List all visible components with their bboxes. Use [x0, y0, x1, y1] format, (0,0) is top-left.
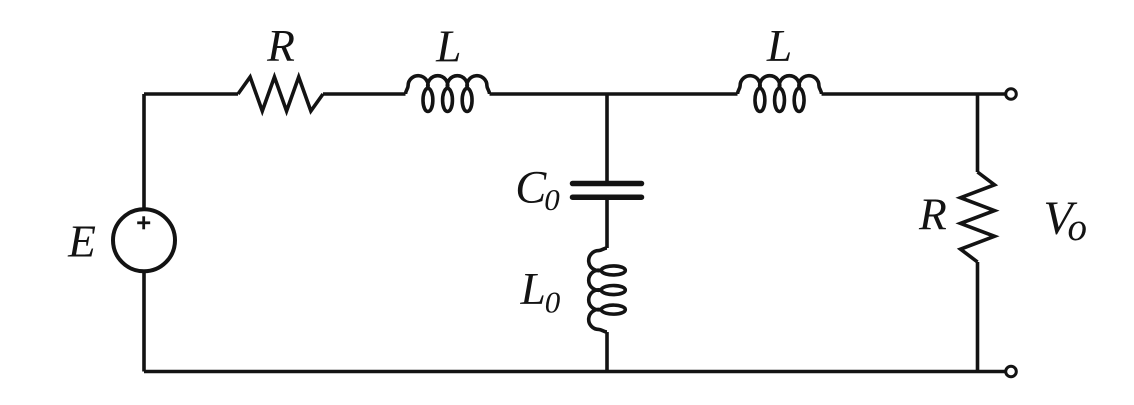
wire: middle branch, L0 to bottom rail — [605, 332, 609, 371]
output terminal bottom (open circle) — [1006, 366, 1017, 377]
wire: right branch, R2 to bottom rail — [976, 262, 980, 372]
inductor L1 (first series L) — [406, 76, 490, 112]
svg-text:0: 0 — [545, 284, 561, 319]
wire: top rail between L1 and L2 through node A — [490, 92, 738, 96]
svg-text:E: E — [67, 216, 96, 267]
svg-text:0: 0 — [544, 182, 560, 217]
wire: top rail, source corner to R1 — [144, 92, 238, 96]
wire: left rail through source — [142, 94, 146, 372]
svg-text:C: C — [515, 162, 547, 213]
voltage source polarity plus — [137, 216, 150, 229]
svg-text:L: L — [520, 263, 546, 314]
svg-text:o: o — [1067, 206, 1087, 249]
inductor L0 (vertical shunt) — [589, 248, 626, 332]
svg-text:R: R — [918, 189, 947, 240]
wire: right branch, top rail to R2 — [976, 94, 980, 172]
wire: bottom rail — [144, 370, 1011, 374]
voltage source E (circle) — [113, 209, 175, 271]
capacitor C0 plates — [573, 184, 642, 198]
svg-text:L: L — [435, 21, 461, 72]
svg-text:R: R — [266, 20, 295, 71]
output terminal top (open circle) — [1006, 89, 1017, 100]
wire: middle branch between C0 and L0 — [605, 197, 609, 248]
resistor R1 (series R, top left) — [238, 77, 323, 111]
svg-text:L: L — [766, 20, 792, 71]
wire: top rail between R1 and L1 — [323, 92, 406, 96]
wire: top rail, L2 to output terminal — [822, 92, 1011, 96]
wire: middle branch, node A down to C0 — [605, 94, 609, 184]
inductor L2 (second series L) — [738, 76, 822, 112]
resistor R2 (load R, vertical) — [961, 172, 995, 262]
